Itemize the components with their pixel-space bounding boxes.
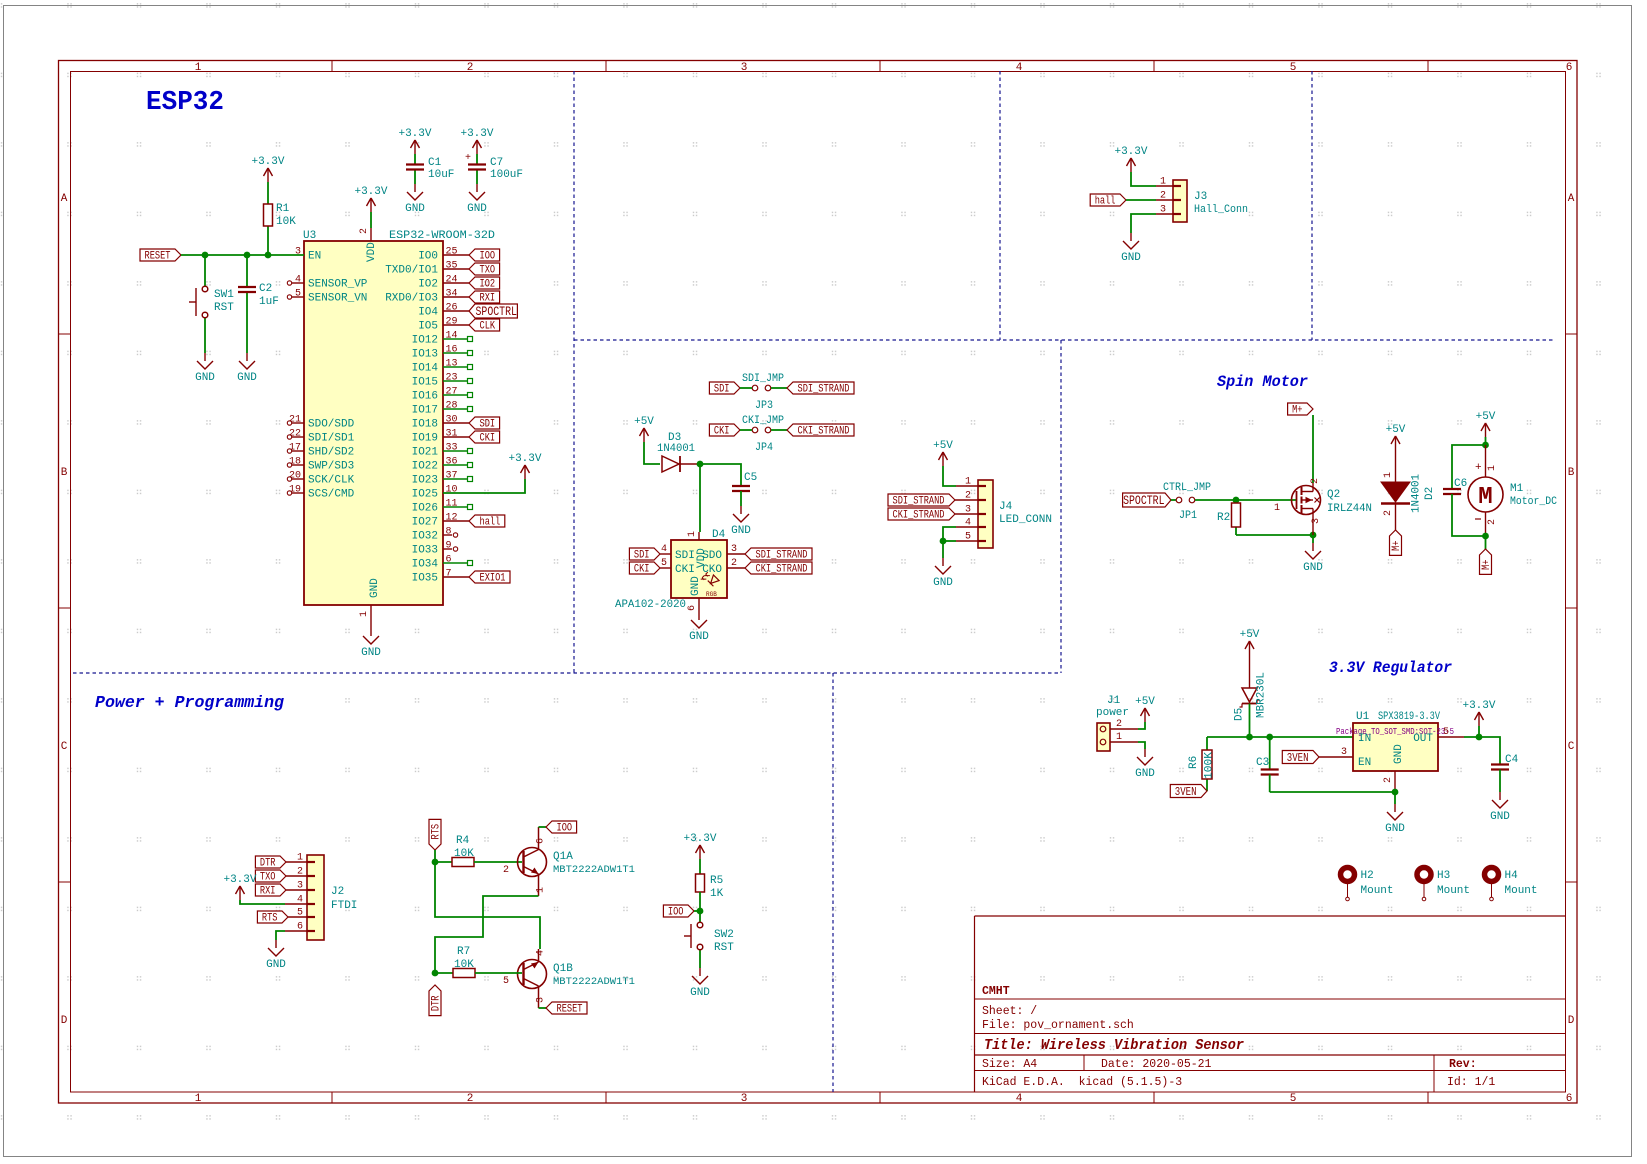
svg-text:CMHT: CMHT xyxy=(982,985,1010,998)
power +3.3V at R5 xyxy=(683,833,716,859)
svg-text:CKI_STRAND: CKI_STRAND xyxy=(798,426,850,438)
svg-text:4: 4 xyxy=(1016,1093,1023,1105)
section title Spin Motor xyxy=(1217,373,1308,391)
wire OUT to C4 xyxy=(1464,737,1500,764)
svg-text:3VEN: 3VEN xyxy=(1287,752,1309,765)
capacitor C7 100uF polarized xyxy=(465,153,523,184)
junction at SW1 branch xyxy=(202,252,209,259)
svg-text:SPOCTRL: SPOCTRL xyxy=(1123,494,1164,508)
U3 pin 37 IO23 xyxy=(412,471,473,487)
svg-text:CKI: CKI xyxy=(480,433,496,445)
svg-text:3: 3 xyxy=(1311,518,1322,524)
svg-text:D: D xyxy=(1568,1015,1575,1027)
title block title xyxy=(984,1038,1244,1054)
svg-text:+3.3V: +3.3V xyxy=(251,156,284,168)
svg-text:GND: GND xyxy=(1490,811,1510,823)
section divider vertical top middle xyxy=(999,71,1001,340)
svg-text:16: 16 xyxy=(446,345,458,356)
power +5V at J4 xyxy=(933,440,953,466)
svg-text:5: 5 xyxy=(1290,1093,1297,1105)
svg-text:Q1B: Q1B xyxy=(553,963,573,975)
power +3.3V at R1 xyxy=(251,156,284,182)
svg-text:H2: H2 xyxy=(1361,870,1374,882)
U3 pin 29 IO5 xyxy=(418,317,469,333)
junction at motor top xyxy=(1482,442,1489,449)
U3 pin 28 IO17 xyxy=(412,401,473,417)
svg-text:+5V: +5V xyxy=(1135,696,1155,708)
svg-text:4: 4 xyxy=(661,544,667,555)
svg-text:RXD0/IO3: RXD0/IO3 xyxy=(385,293,438,305)
svg-text:IO2: IO2 xyxy=(480,279,496,291)
wire D3 to C5 xyxy=(700,464,741,486)
power +5V at D3 xyxy=(634,416,654,442)
svg-text:IO25: IO25 xyxy=(412,489,438,501)
svg-text:RGB: RGB xyxy=(706,591,717,598)
global label CKI_STRAND at D4 xyxy=(745,562,812,576)
D4 pin 4 SDI xyxy=(660,544,695,562)
resistor R5 1K xyxy=(696,859,724,911)
wire JP3 to SDI_STRAND xyxy=(771,387,787,389)
svg-text:2: 2 xyxy=(467,1093,474,1105)
svg-text:U1: U1 xyxy=(1356,711,1370,723)
svg-text:CTRL_JMP: CTRL_JMP xyxy=(1163,482,1211,494)
svg-text:7: 7 xyxy=(446,569,452,580)
svg-text:SDI: SDI xyxy=(634,550,650,562)
wire R2 to Q2 source xyxy=(1236,534,1313,536)
svg-text:5: 5 xyxy=(1290,62,1297,74)
svg-text:IO12: IO12 xyxy=(412,335,438,347)
svg-text:12: 12 xyxy=(446,513,458,524)
svg-text:C4: C4 xyxy=(1505,754,1519,766)
svg-text:2: 2 xyxy=(1116,719,1122,730)
wire JP1 to Q2 gate xyxy=(1195,499,1296,501)
power +3.3V at J2 xyxy=(223,874,256,900)
svg-text:SENSOR_VN: SENSOR_VN xyxy=(308,293,367,305)
section divider horizontal upper xyxy=(574,339,1553,341)
junction at C3 top xyxy=(1266,734,1273,741)
svg-text:SDO/SDD: SDO/SDD xyxy=(308,419,355,431)
svg-text:J4: J4 xyxy=(999,501,1013,513)
wire hall to J3 pin 2 xyxy=(1126,199,1173,201)
wire motor to M+ xyxy=(1485,536,1487,549)
svg-text:M+: M+ xyxy=(1481,559,1493,569)
svg-text:2: 2 xyxy=(503,865,509,876)
svg-text:R2: R2 xyxy=(1217,512,1230,524)
title block company CMHT xyxy=(982,985,1010,998)
svg-text:100K: 100K xyxy=(1204,752,1216,779)
svg-text:1: 1 xyxy=(536,887,547,893)
power +5V at J1 xyxy=(1135,696,1155,722)
LED driver D4 APA102-2020 body xyxy=(615,529,727,611)
svg-text:+: + xyxy=(1475,462,1482,474)
ground at U3 pin 1 xyxy=(361,618,381,659)
U3 pin 11 IO26 xyxy=(412,499,473,515)
U3 pin 3 EN xyxy=(295,247,321,263)
svg-text:A: A xyxy=(1568,193,1575,205)
svg-text:11: 11 xyxy=(446,499,458,510)
svg-text:M+: M+ xyxy=(1292,405,1302,417)
U3 pin 36 IO22 xyxy=(412,457,473,473)
U3 pin 1 GND xyxy=(359,578,381,618)
svg-text:1: 1 xyxy=(195,1093,202,1105)
global label SPOCTRL at JP1 xyxy=(1123,493,1171,508)
svg-text:10K: 10K xyxy=(276,216,296,228)
svg-text:LED_CONN: LED_CONN xyxy=(999,514,1052,526)
svg-text:B: B xyxy=(1568,467,1575,479)
svg-text:18: 18 xyxy=(289,457,301,468)
connector J4 LED_CONN xyxy=(965,477,1052,549)
wire TXO to J2 pin 2 xyxy=(286,875,307,877)
svg-text:GND: GND xyxy=(195,372,215,384)
svg-text:SDI: SDI xyxy=(675,550,695,562)
junction at Q2 source xyxy=(1310,532,1317,539)
global label M+ at Q2 drain xyxy=(1288,403,1313,417)
svg-text:4: 4 xyxy=(295,275,301,286)
resistor R6 100K xyxy=(1188,737,1216,791)
svg-text:GND: GND xyxy=(405,203,425,215)
global label IOO xyxy=(469,249,500,263)
svg-text:CLK: CLK xyxy=(480,321,496,333)
svg-text:5: 5 xyxy=(661,558,667,569)
svg-text:File: pov_ornament.sch: File: pov_ornament.sch xyxy=(982,1019,1134,1032)
svg-text:+3.3V: +3.3V xyxy=(398,128,431,140)
U3 pin 9 IO33 xyxy=(412,541,458,557)
svg-text:IO34: IO34 xyxy=(412,559,439,571)
svg-text:GND: GND xyxy=(1135,768,1155,780)
title block file xyxy=(982,1019,1134,1032)
svg-text:Mount: Mount xyxy=(1505,885,1538,897)
svg-text:IO32: IO32 xyxy=(412,531,438,543)
svg-text:CKI_JMP: CKI_JMP xyxy=(742,415,784,427)
svg-text:C: C xyxy=(61,741,68,753)
svg-text:IO19: IO19 xyxy=(412,433,438,445)
connector J2 FTDI xyxy=(297,853,357,941)
svg-text:TXO: TXO xyxy=(480,265,496,277)
section divider vertical LED/motor xyxy=(1060,340,1062,673)
global label RESET xyxy=(140,249,181,263)
svg-text:RXI: RXI xyxy=(480,293,496,305)
svg-text:FTDI: FTDI xyxy=(331,900,357,912)
svg-text:EXIO1: EXIO1 xyxy=(480,573,506,585)
svg-text:R1: R1 xyxy=(276,203,290,215)
U3 pin 24 IO2 xyxy=(418,275,469,291)
svg-text:GND: GND xyxy=(690,987,710,999)
svg-text:SENSOR_VP: SENSOR_VP xyxy=(308,279,368,291)
wire IOO to R5 xyxy=(694,910,700,912)
svg-text:C6: C6 xyxy=(1454,478,1467,490)
svg-text:MBT2222ADW1T1: MBT2222ADW1T1 xyxy=(553,864,635,876)
U3 pin 25 IO0 xyxy=(418,247,469,263)
svg-text:+3.3V: +3.3V xyxy=(1114,146,1147,158)
U3 pin 6 IO34 xyxy=(412,555,473,571)
svg-text:GND: GND xyxy=(1385,823,1405,835)
svg-text:RTS: RTS xyxy=(431,824,443,840)
svg-text:1: 1 xyxy=(1383,472,1394,478)
svg-text:EN: EN xyxy=(1358,757,1371,769)
svg-text:SDI_STRAND: SDI_STRAND xyxy=(798,384,850,396)
svg-text:C5: C5 xyxy=(744,472,757,484)
svg-text:3VEN: 3VEN xyxy=(1175,786,1197,799)
U1 pin 5 OUT xyxy=(1438,727,1464,738)
svg-text:1: 1 xyxy=(687,531,698,537)
ground at C4 xyxy=(1490,792,1510,823)
svg-text:R4: R4 xyxy=(456,835,470,847)
svg-text:GND: GND xyxy=(266,959,286,971)
U3 pin 2 VDD xyxy=(359,228,378,262)
svg-text:SPX3819-3.3V: SPX3819-3.3V xyxy=(1378,711,1440,723)
title block id xyxy=(1447,1076,1495,1089)
power +3.3V at C1 xyxy=(398,128,431,154)
junction at C2 branch xyxy=(244,252,251,259)
global label CKI_STRAND at JP4 xyxy=(787,424,854,438)
U3 pin 17 SHD/SD2 xyxy=(287,443,354,459)
title block kicad version xyxy=(982,1076,1182,1089)
svg-text:GND: GND xyxy=(1303,562,1323,574)
svg-text:1uF: 1uF xyxy=(259,296,279,308)
U3 pin 14 IO12 xyxy=(412,331,473,347)
D4 RGB LED glyph xyxy=(701,571,719,598)
svg-text:Q2: Q2 xyxy=(1327,489,1340,501)
svg-text:36: 36 xyxy=(446,457,458,468)
section divider vertical top right xyxy=(1311,71,1313,340)
svg-text:H4: H4 xyxy=(1505,870,1519,882)
U3 pin 13 IO14 xyxy=(412,359,473,375)
svg-text:power: power xyxy=(1096,707,1129,719)
svg-text:EN: EN xyxy=(308,251,321,263)
svg-text:9: 9 xyxy=(446,541,452,552)
power +3.3V at VDD xyxy=(354,186,387,228)
svg-text:J2: J2 xyxy=(331,886,344,898)
junction at D3 cathode xyxy=(697,461,704,468)
svg-text:1: 1 xyxy=(1274,503,1280,514)
U3 pin 34 RXD0/IO3 xyxy=(385,289,469,305)
svg-text:CKI: CKI xyxy=(714,426,730,438)
svg-text:6: 6 xyxy=(1566,1093,1573,1105)
svg-text:ESP32-WROOM-32D: ESP32-WROOM-32D xyxy=(389,230,495,242)
svg-text:IO15: IO15 xyxy=(412,377,438,389)
svg-text:SDI: SDI xyxy=(714,384,730,396)
svg-text:D4: D4 xyxy=(712,529,726,541)
svg-text:SCK/CLK: SCK/CLK xyxy=(308,475,355,487)
wire Q1B collector to RESET xyxy=(539,1007,547,1009)
U3 pin 12 IO27 xyxy=(412,513,469,529)
ground at SW2 xyxy=(690,968,710,999)
svg-text:RST: RST xyxy=(214,302,234,314)
wire +3.3V to J2 pin 4 xyxy=(240,900,307,904)
svg-text:Rev:: Rev: xyxy=(1449,1058,1477,1071)
svg-text:6: 6 xyxy=(446,555,452,566)
svg-text:Spin Motor: Spin Motor xyxy=(1217,373,1308,391)
U3 pin 26 IO4 xyxy=(418,303,469,319)
svg-text:IO33: IO33 xyxy=(412,545,438,557)
svg-text:VDD: VDD xyxy=(366,242,378,262)
svg-text:+3.3V: +3.3V xyxy=(460,128,493,140)
junction at R1 branch xyxy=(265,252,272,259)
diode D5 MBR230L schottky xyxy=(1234,655,1268,721)
wire JP4 to CKI_STRAND xyxy=(771,429,787,431)
svg-text:1N4001: 1N4001 xyxy=(657,443,695,455)
svg-text:26: 26 xyxy=(446,303,458,314)
U3 pin 23 IO15 xyxy=(412,373,473,389)
svg-text:MBR230L: MBR230L xyxy=(1256,672,1268,718)
svg-text:C2: C2 xyxy=(259,283,272,295)
svg-text:IO21: IO21 xyxy=(412,447,439,459)
svg-text:IO18: IO18 xyxy=(412,419,438,431)
svg-text:IO35: IO35 xyxy=(412,573,438,585)
svg-text:25: 25 xyxy=(446,247,458,258)
mounting hole H2 xyxy=(1341,868,1394,901)
svg-text:IO26: IO26 xyxy=(412,503,438,515)
frame column numbers xyxy=(195,62,1573,1105)
section divider horizontal lower xyxy=(73,672,1061,674)
U3 pin 4 SENSOR_VP xyxy=(287,275,368,291)
global label IOO at Q1A xyxy=(546,821,577,835)
svg-text:1K: 1K xyxy=(710,888,724,900)
svg-text:GND: GND xyxy=(361,647,381,659)
svg-text:Sheet: /: Sheet: / xyxy=(982,1005,1037,1018)
svg-text:MBT2222ADW1T1: MBT2222ADW1T1 xyxy=(553,976,635,988)
wire output to +3.3V xyxy=(1478,726,1480,737)
wire J2 pin 6 to ground xyxy=(276,931,307,940)
svg-text:+3.3V: +3.3V xyxy=(508,453,541,465)
section divider vertical ESP32/middle xyxy=(573,71,575,673)
title block sheet xyxy=(982,1005,1037,1018)
ground at J2 xyxy=(266,940,286,971)
global label SDI at JP3 xyxy=(709,382,740,396)
svg-text:M+: M+ xyxy=(1391,540,1403,550)
wire IO25 to +3.3V xyxy=(443,479,525,493)
svg-text:5: 5 xyxy=(503,976,509,987)
global label hall at J3 xyxy=(1090,194,1126,208)
U3 pin 33 IO21 xyxy=(412,443,473,459)
power +3.3V at regulator output xyxy=(1462,700,1495,726)
capacitor C5 xyxy=(732,472,757,506)
svg-text:SHD/SD2: SHD/SD2 xyxy=(308,447,354,459)
global label SDI_STRAND at JP3 xyxy=(787,382,854,396)
svg-text:SDI_JMP: SDI_JMP xyxy=(742,373,784,385)
svg-text:SPOCTRL: SPOCTRL xyxy=(476,305,517,319)
connector J1 power xyxy=(1096,695,1138,751)
svg-text:10uF: 10uF xyxy=(428,169,454,181)
junction at D5 cathode xyxy=(1246,734,1253,741)
global label DTR at R7 xyxy=(429,985,443,1016)
svg-text:IOO: IOO xyxy=(480,251,496,263)
svg-text:R7: R7 xyxy=(457,946,470,958)
svg-text:2: 2 xyxy=(1487,519,1498,525)
svg-text:3: 3 xyxy=(741,62,748,74)
power +3.3V at C7 xyxy=(460,128,493,154)
svg-text:5: 5 xyxy=(295,289,301,300)
svg-text:A: A xyxy=(61,193,68,205)
section title 3.3V Regulator xyxy=(1329,659,1452,677)
svg-text:3: 3 xyxy=(1341,747,1347,758)
svg-text:+5V: +5V xyxy=(634,416,654,428)
svg-text:SWP/SD3: SWP/SD3 xyxy=(308,461,354,473)
motor M1 Motor_DC xyxy=(1468,445,1557,536)
svg-text:+5V: +5V xyxy=(1476,411,1496,423)
global label SDI at D4 xyxy=(629,548,660,562)
svg-text:IO22: IO22 xyxy=(412,461,438,473)
ground at J1 xyxy=(1135,749,1155,780)
global label M+ at D2 xyxy=(1390,530,1404,555)
svg-text:Date: 2020-05-21: Date: 2020-05-21 xyxy=(1101,1058,1212,1071)
svg-text:SDO: SDO xyxy=(702,550,722,562)
jumper JP4 CKI_JMP xyxy=(742,415,784,454)
svg-text:IN: IN xyxy=(1358,733,1371,745)
svg-text:GND: GND xyxy=(1393,744,1405,764)
svg-text:GND: GND xyxy=(731,525,751,537)
power +5V at D2 xyxy=(1386,424,1406,450)
svg-text:6: 6 xyxy=(687,605,698,611)
svg-text:GND: GND xyxy=(690,576,702,596)
svg-text:R6: R6 xyxy=(1188,756,1200,769)
D4 pin 6 GND xyxy=(687,576,702,612)
svg-text:35: 35 xyxy=(446,261,458,272)
svg-text:8: 8 xyxy=(446,527,452,538)
global label RTS at R4 xyxy=(429,819,443,850)
regulator U1 EN pin xyxy=(1319,747,1353,758)
svg-text:SW2: SW2 xyxy=(714,929,734,941)
section divider vertical bottom xyxy=(832,673,834,1092)
svg-text:SDI_STRAND: SDI_STRAND xyxy=(893,496,945,508)
junction at motor bottom xyxy=(1482,533,1489,540)
svg-text:14: 14 xyxy=(446,331,458,342)
D4 pin 2 CKO xyxy=(702,558,745,576)
capacitor C1 10uF xyxy=(406,154,454,184)
svg-text:IO4: IO4 xyxy=(418,307,438,319)
svg-text:JP3: JP3 xyxy=(755,400,773,412)
svg-text:6: 6 xyxy=(536,838,547,844)
svg-text:100uF: 100uF xyxy=(490,169,523,181)
global label TXO at J2 xyxy=(255,870,286,884)
svg-text:hall: hall xyxy=(1095,196,1116,208)
svg-text:RESET: RESET xyxy=(145,251,171,263)
svg-text:IO16: IO16 xyxy=(412,391,438,403)
global label TXO xyxy=(469,263,500,277)
svg-text:JP4: JP4 xyxy=(755,442,773,454)
wire J1 pin 2 to +5V xyxy=(1138,722,1145,729)
D4 pin 3 SDO xyxy=(702,544,745,562)
svg-text:JP1: JP1 xyxy=(1179,510,1197,522)
global label SDI_STRAND at J4 xyxy=(888,494,955,508)
svg-text:M1: M1 xyxy=(1510,483,1524,495)
svg-text:IO27: IO27 xyxy=(412,517,438,529)
global label RTS at J2 xyxy=(257,911,288,925)
title block size and date xyxy=(982,1058,1212,1071)
switch SW2 RST xyxy=(684,911,734,968)
svg-text:13: 13 xyxy=(446,359,458,370)
U3 pin 5 SENSOR_VN xyxy=(287,289,367,305)
section title Power + Programming xyxy=(95,694,285,713)
svg-text:M: M xyxy=(1478,484,1492,511)
U1 pin 2 GND xyxy=(1383,771,1395,792)
power +5V at motor xyxy=(1476,411,1496,445)
ground at D4 xyxy=(689,612,709,643)
U3 pin 31 IO19 xyxy=(412,429,469,445)
wire +3.3V to J3 pin 1 xyxy=(1131,172,1173,186)
U3 pin 8 IO32 xyxy=(412,527,458,543)
svg-text:SCS/CMD: SCS/CMD xyxy=(308,489,355,501)
svg-text:3: 3 xyxy=(731,544,737,555)
U3 pin 35 TXD0/IO1 xyxy=(385,261,469,277)
svg-text:4: 4 xyxy=(1016,62,1023,74)
svg-text:IRLZ44N: IRLZ44N xyxy=(1327,503,1372,515)
svg-text:GND: GND xyxy=(1121,252,1141,264)
svg-text:B: B xyxy=(61,467,68,479)
wire +5V to J4 pin 1 xyxy=(943,466,978,486)
global label IOO at SW2 xyxy=(663,905,694,919)
svg-text:H3: H3 xyxy=(1437,870,1450,882)
